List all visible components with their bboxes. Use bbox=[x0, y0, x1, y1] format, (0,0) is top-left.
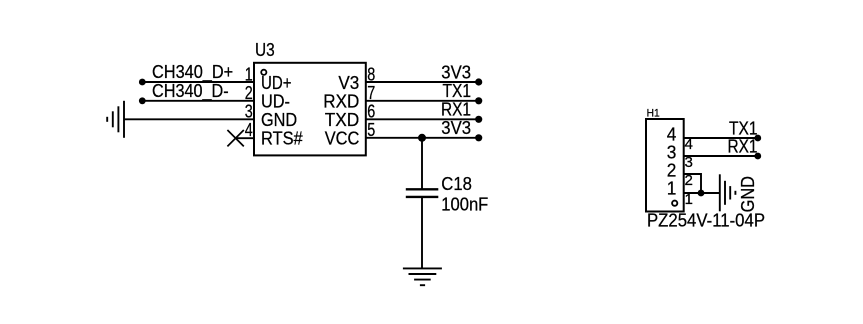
svg-text:CH340_D+: CH340_D+ bbox=[152, 62, 233, 83]
svg-text:RTS#: RTS# bbox=[261, 129, 303, 149]
wire pin1 CH340_D+ bbox=[142, 81, 254, 83]
node CH340_D- dot bbox=[139, 97, 146, 104]
svg-text:GND: GND bbox=[738, 176, 758, 212]
wire pin6 RX1 bbox=[366, 118, 479, 120]
svg-text:RXD: RXD bbox=[323, 92, 359, 112]
svg-text:RX1: RX1 bbox=[441, 100, 471, 120]
ground (left, rotated) bbox=[107, 101, 124, 138]
svg-text:VCC: VCC bbox=[325, 129, 360, 149]
capacitor C18 bbox=[406, 189, 439, 197]
node 3V3 dot bbox=[475, 78, 482, 85]
wire capacitor to ground bbox=[421, 197, 423, 269]
node RX1 dot (H1) bbox=[754, 153, 761, 160]
node RX1 dot bbox=[475, 116, 482, 123]
wire pin3 to ground bbox=[124, 118, 254, 120]
wire junction to capacitor bbox=[421, 138, 423, 190]
node CH340_D+ dot bbox=[139, 79, 146, 86]
svg-text:GND: GND bbox=[261, 110, 297, 130]
wire pin8 3V3 bbox=[366, 81, 479, 83]
node TX1 dot (H1) bbox=[754, 135, 761, 142]
svg-text:3V3: 3V3 bbox=[441, 62, 471, 82]
ground (right, rotated) bbox=[720, 174, 736, 211]
svg-text:UD-: UD- bbox=[261, 92, 290, 112]
wire H1 pin2 elbow bbox=[684, 174, 701, 193]
wire pin5 3V3 bbox=[366, 137, 479, 139]
svg-text:RX1: RX1 bbox=[728, 137, 758, 157]
svg-text:2: 2 bbox=[667, 160, 677, 180]
svg-text:3: 3 bbox=[667, 142, 677, 162]
svg-text:U3: U3 bbox=[255, 40, 275, 60]
wire H1 pin1 to ground bbox=[684, 192, 720, 194]
junction pin1/pin2 bbox=[698, 190, 705, 197]
node TX1 dot bbox=[475, 97, 482, 104]
svg-text:TX1: TX1 bbox=[443, 81, 472, 101]
svg-text:V3: V3 bbox=[338, 73, 359, 93]
svg-text:TXD: TXD bbox=[325, 110, 360, 130]
wire H1 pin4 TX1 bbox=[684, 137, 758, 139]
no-connect X on pin 4 bbox=[227, 130, 243, 146]
wire pin7 TX1 bbox=[366, 100, 479, 102]
svg-text:3V3: 3V3 bbox=[441, 118, 471, 138]
svg-text:PZ254V-11-04P: PZ254V-11-04P bbox=[647, 210, 765, 230]
svg-text:4: 4 bbox=[245, 119, 253, 140]
svg-text:1: 1 bbox=[667, 178, 677, 198]
svg-text:UD+: UD+ bbox=[261, 73, 292, 93]
wire pin4 stub bbox=[236, 137, 254, 139]
svg-text:4: 4 bbox=[667, 124, 677, 144]
wire H1 pin3 RX1 bbox=[684, 155, 758, 157]
wire pin2 CH340_D- bbox=[142, 100, 254, 102]
svg-text:TX1: TX1 bbox=[729, 119, 758, 139]
IC body U3 bbox=[254, 63, 366, 156]
U3 pin 1 indicator circle bbox=[261, 70, 266, 75]
svg-text:H1: H1 bbox=[647, 108, 660, 120]
junction on VCC wire bbox=[418, 134, 426, 142]
svg-text:100nF: 100nF bbox=[441, 195, 488, 215]
node 3V3 dot 2 bbox=[475, 134, 482, 141]
connector H1 body bbox=[646, 119, 684, 212]
connector pin1 circle bbox=[672, 201, 677, 206]
svg-text:C18: C18 bbox=[441, 174, 472, 194]
svg-text:CH340_D-: CH340_D- bbox=[152, 81, 229, 102]
ground (bottom) bbox=[403, 268, 442, 285]
